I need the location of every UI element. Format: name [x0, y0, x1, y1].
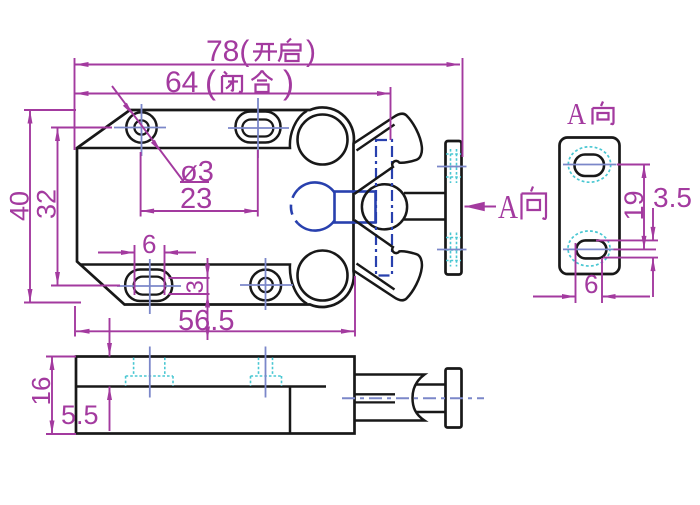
- dim 78 right ext: [462, 58, 464, 157]
- svg-text:6: 6: [584, 269, 598, 299]
- arrow 6 right: [165, 250, 179, 255]
- dim 19 bottom ext: [614, 248, 657, 250]
- A-view centerline top: [563, 164, 617, 166]
- dim 6A line left part: [533, 296, 576, 298]
- slider hidden rect (dash-dot): [376, 140, 392, 276]
- blue ball solid arc bottom: [298, 221, 335, 231]
- hole top-left inner: [134, 120, 148, 134]
- dim 40 line: [29, 110, 31, 303]
- dim 64 line: [75, 93, 391, 95]
- rod bottom line: [417, 411, 446, 414]
- A-arrow tail: [465, 206, 497, 208]
- arrow 3.5 bottom: [651, 258, 656, 272]
- plunger housing: [355, 375, 425, 421]
- bottom wing outer: [354, 220, 422, 300]
- dim 6 left ext: [134, 245, 136, 295]
- rod inner line upper: [355, 393, 396, 395]
- arrow dia3 lower: [151, 140, 163, 154]
- shaft top line: [404, 192, 446, 195]
- dim 32 bottom ext: [51, 285, 120, 287]
- svg-text:32: 32: [32, 189, 62, 219]
- dim 3.5 lower segment: [652, 258, 654, 297]
- dim 6A right ext: [601, 258, 603, 303]
- dim 3.5 upper segment: [652, 208, 654, 240]
- svg-text:(: (: [205, 64, 216, 101]
- A-view slot bottom: [576, 240, 606, 258]
- dim 6 line right part: [165, 252, 197, 254]
- roller circle: [362, 184, 407, 229]
- side centerline left screw: [149, 347, 151, 398]
- dim 64 right ext: [390, 87, 392, 140]
- arrow 40 top: [28, 110, 33, 124]
- svg-text:19: 19: [619, 190, 649, 220]
- arrow 16 bottom: [50, 421, 55, 435]
- svg-text:23: 23: [180, 183, 212, 215]
- blue stem rectangle: [335, 192, 376, 223]
- dim 32 top ext: [51, 127, 112, 129]
- dim 16 top ext: [46, 356, 76, 358]
- dim 56.5 right ext: [354, 276, 356, 337]
- dim 78 left ext: [74, 58, 76, 150]
- arrow 19 bottom: [642, 236, 647, 250]
- strike plate: [446, 141, 462, 275]
- arrow 64 right: [377, 91, 391, 96]
- A-view slot top: [575, 155, 605, 177]
- rod top line: [417, 383, 446, 386]
- arrow 23 left: [141, 209, 155, 214]
- body outline (top view): [77, 107, 354, 307]
- plate screw bottom (cyan hidden): [446, 233, 461, 267]
- dim 5.5 upper segment: [109, 318, 111, 357]
- arrow dia3 upper: [123, 103, 135, 117]
- dim 16 bottom ext: [46, 433, 76, 435]
- side body rect: [76, 357, 355, 434]
- svg-text:3: 3: [182, 280, 209, 293]
- arrow 6A left: [562, 294, 576, 299]
- dim 32 line: [57, 128, 59, 286]
- dim 6 line left part: [98, 252, 135, 254]
- dim 23 right ext: [257, 150, 259, 217]
- large circle top-right: [298, 115, 348, 165]
- crosshair slot top: [228, 98, 289, 158]
- arrow 16 top: [50, 357, 55, 371]
- hole bottom inner: [259, 278, 273, 292]
- arrow 19 top: [642, 165, 647, 179]
- crosshair hole top-left: [114, 104, 166, 156]
- dim 3 upper ext: [169, 277, 210, 279]
- svg-text:A: A: [567, 96, 587, 131]
- glyph kai: [253, 44, 277, 61]
- arrow 5.5 up: [107, 387, 112, 401]
- dim 23 left ext: [140, 152, 142, 217]
- dia3 underline: [180, 181, 209, 183]
- arrow 56.5 right: [341, 329, 355, 334]
- svg-text:A: A: [498, 189, 518, 226]
- svg-text:5.5: 5.5: [61, 400, 99, 430]
- svg-text:): ): [306, 35, 316, 68]
- arrow 32 top: [55, 128, 60, 142]
- glyph bi: [222, 72, 242, 93]
- side centerline: [342, 397, 484, 399]
- arrow 5.5 down: [107, 343, 112, 357]
- plate screw top (cyan hidden): [446, 149, 461, 183]
- arrow 40 bottom: [28, 289, 33, 303]
- dim 23 line: [141, 210, 258, 212]
- dim 19 line: [643, 165, 645, 250]
- A-view dashed ellipse bottom: [568, 231, 610, 266]
- dim 40 top ext: [24, 109, 76, 111]
- dim 56.5 line: [76, 330, 355, 332]
- dim 16 line: [51, 357, 53, 435]
- dim 6A left ext: [575, 243, 577, 303]
- arrow 3 top: [205, 264, 210, 278]
- blue ball dashed arc left: [291, 190, 298, 224]
- dim 5.5 lower segment: [109, 387, 111, 432]
- dim 3.5 lower ext: [603, 257, 658, 259]
- slot bottom inner: [134, 277, 166, 295]
- A-view plate: [560, 138, 620, 275]
- arrow 3 bottom: [205, 294, 210, 308]
- inner top strip line: [77, 111, 307, 148]
- arrow 3 overshoot: [205, 327, 210, 341]
- dim 3 lower ext: [169, 293, 210, 295]
- A-view centerline bottom: [563, 248, 614, 250]
- dim 19 top ext: [617, 164, 650, 166]
- dim 6 right ext: [164, 245, 166, 295]
- inner bottom strip line: [80, 265, 308, 304]
- arrow 64 left: [75, 91, 89, 96]
- side centerline right screw: [265, 347, 267, 398]
- svg-text:): ): [283, 64, 294, 101]
- dim 56.5 left ext: [74, 306, 76, 337]
- glyph xiang title: [593, 102, 614, 125]
- slot top outer: [236, 112, 281, 143]
- svg-text:3.5: 3.5: [653, 182, 692, 213]
- side hidden hole right (cyan): [251, 358, 282, 387]
- svg-text:40: 40: [5, 191, 35, 221]
- knob rect: [446, 369, 462, 428]
- top wing outer: [354, 114, 422, 194]
- arrow 3.5 top: [651, 227, 656, 241]
- dim 3 vertical line: [207, 258, 209, 340]
- dia3 leader line: [112, 86, 184, 182]
- shaft bottom line: [404, 218, 446, 221]
- svg-text:56.5: 56.5: [178, 305, 234, 337]
- svg-text:6: 6: [142, 229, 156, 259]
- A-view dashed ellipse top: [568, 147, 610, 182]
- top wing arm inner line: [357, 125, 395, 151]
- arrow 6A right: [602, 294, 616, 299]
- crosshair slot bottom: [117, 259, 181, 314]
- arrow 23 right: [244, 209, 258, 214]
- arrow 32 bottom: [55, 272, 60, 286]
- dim 40 bottom ext: [24, 302, 81, 304]
- blue ball solid arc top: [298, 182, 335, 192]
- plate screw centerline top: [437, 166, 467, 168]
- hole bottom outer: [250, 270, 281, 301]
- side hidden slot left (cyan): [126, 358, 173, 387]
- arrow 78 right: [447, 62, 461, 67]
- arrow 6 left: [121, 250, 135, 255]
- crosshair hole bottom: [240, 258, 293, 310]
- plate screw centerline bottom: [437, 249, 467, 251]
- large circle bottom-right: [298, 251, 348, 301]
- slot bottom outer: [125, 270, 172, 302]
- arrow 56.5 left: [76, 329, 90, 334]
- dim 3.5 upper ext: [596, 239, 658, 241]
- side inner line: [76, 385, 326, 388]
- arrow A-view pointer: [465, 202, 485, 212]
- glyph he: [252, 71, 273, 93]
- side inner vertical: [289, 387, 292, 434]
- bottom wing arm inner line: [357, 264, 395, 290]
- glyph qi: [279, 39, 301, 62]
- dim 78 line: [75, 64, 460, 66]
- arrow 78 left: [75, 62, 89, 67]
- rod inner line lower: [355, 401, 396, 403]
- svg-text:64: 64: [165, 66, 198, 99]
- dim 6A line right part: [602, 296, 650, 298]
- svg-text:16: 16: [26, 377, 56, 406]
- glyph xiang pointer: [522, 187, 547, 220]
- hole top-left outer: [126, 112, 156, 142]
- slot top inner: [242, 120, 273, 137]
